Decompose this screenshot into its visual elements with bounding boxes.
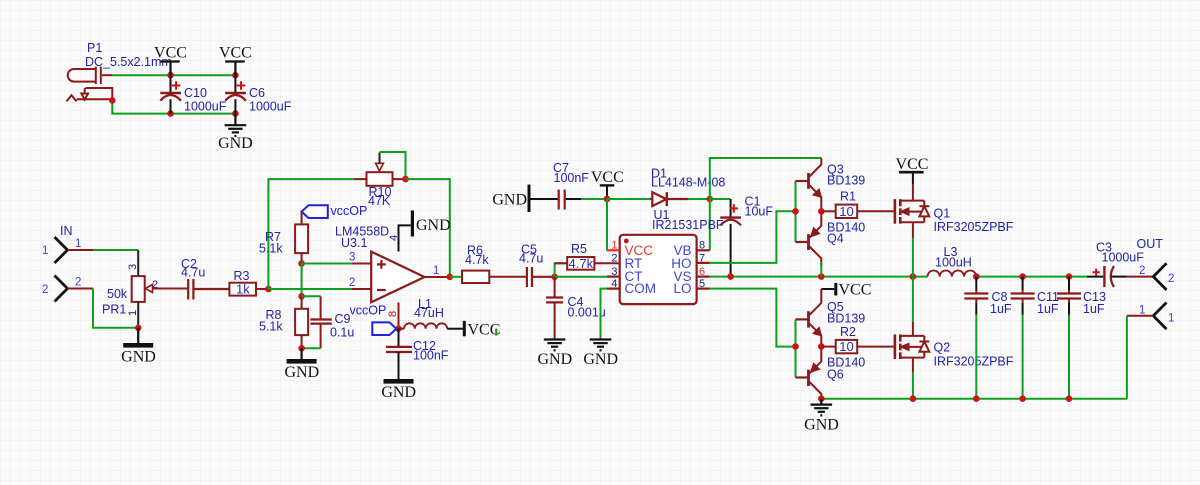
svg-text:IRF3205ZPBF: IRF3205ZPBF <box>934 355 1014 369</box>
svg-text:100uH: 100uH <box>935 256 972 270</box>
wire COM to ground <box>601 289 607 340</box>
junction <box>265 286 272 293</box>
svg-text:R3: R3 <box>234 269 250 283</box>
svg-text:5: 5 <box>699 278 705 290</box>
svg-text:C9: C9 <box>335 312 351 326</box>
IC U1 IR21531PBF <box>620 235 697 304</box>
junction <box>167 72 174 79</box>
wire R1 to Q1 gate <box>857 210 893 212</box>
svg-text:4: 4 <box>388 235 400 241</box>
capacitor C8 1uF <box>964 277 988 399</box>
junction <box>1019 395 1026 402</box>
transistor Q3 BD139 <box>796 158 822 211</box>
junction <box>298 260 305 267</box>
svg-text:1000uF: 1000uF <box>249 100 292 114</box>
junction <box>910 273 917 280</box>
power flag VCC (right of L1) <box>447 328 463 330</box>
wire to op-amp non-inverting input <box>302 263 352 265</box>
svg-text:OUT: OUT <box>1137 237 1164 251</box>
ground GND (below C4) <box>544 340 566 351</box>
svg-text:IR21531PBF: IR21531PBF <box>652 218 724 232</box>
svg-text:4.7k: 4.7k <box>465 253 489 267</box>
wire IN1 to PR1 pin3 <box>93 249 138 251</box>
resistor R7 5.1k <box>301 212 303 225</box>
power flag VCC (Q5 collector) <box>821 288 834 290</box>
ground GND (below PR1, bar style) <box>137 328 139 343</box>
svg-text:100nF: 100nF <box>554 171 590 185</box>
wire Q3/Q4 base tie <box>795 181 797 242</box>
power flag VCC (above C7 junction) <box>600 184 615 186</box>
junction <box>910 395 917 402</box>
wire OUT pin1 to GND rail <box>1126 316 1128 399</box>
potentiometer R10 47K <box>354 153 406 186</box>
capacitor C9 0.1u (parallel with R8) <box>302 296 332 348</box>
capacitor C2 4.7u <box>188 279 229 300</box>
wire D1 to VB node <box>688 198 709 200</box>
capacitor C1 10uF polarized <box>720 199 741 277</box>
resistor R2 10 <box>821 346 835 348</box>
capacitor C7 100nF <box>559 190 565 210</box>
svg-text:1: 1 <box>75 238 81 250</box>
svg-text:1uF: 1uF <box>1037 302 1059 316</box>
junction <box>1019 273 1026 280</box>
capacitor C6 1000uF polarized <box>225 75 246 113</box>
svg-text:0.1u: 0.1u <box>330 326 354 340</box>
capacitor C10 1000uF polarized <box>160 75 181 113</box>
diode D1 LL4148-M-08 <box>650 192 688 206</box>
ground GND (below C6) <box>225 114 247 136</box>
svg-text:47uH: 47uH <box>414 306 444 320</box>
svg-text:LO: LO <box>673 281 691 296</box>
junction <box>973 273 980 280</box>
wire LO to driver bases <box>710 289 796 347</box>
svg-text:vccOP: vccOP <box>350 304 387 318</box>
wire Q4 collector to VS <box>820 262 822 277</box>
ground GND (COM) <box>590 340 612 351</box>
resistor R6 4.7k <box>462 271 489 283</box>
svg-text:8: 8 <box>387 311 399 317</box>
svg-text:1: 1 <box>611 240 617 252</box>
svg-text:5.1k: 5.1k <box>259 242 283 256</box>
svg-text:C6: C6 <box>249 86 265 100</box>
pin 1 of IN <box>68 249 94 251</box>
wire Q5/Q6 base tie <box>795 319 797 377</box>
svg-text:C10: C10 <box>184 86 207 100</box>
svg-text:6: 6 <box>699 266 705 278</box>
wire VS rail <box>710 276 928 278</box>
junction <box>1066 273 1073 280</box>
capacitor C13 1uF <box>1057 277 1081 399</box>
capacitor C11 1uF <box>1011 277 1035 399</box>
svg-text:10: 10 <box>839 339 853 354</box>
svg-text:R2: R2 <box>840 325 856 339</box>
pin 6 VS <box>697 276 710 278</box>
junction <box>792 208 799 215</box>
svg-text:47K: 47K <box>368 194 391 208</box>
junction <box>298 345 305 352</box>
inductor L1 47uH <box>399 323 448 328</box>
svg-text:3: 3 <box>127 264 139 270</box>
svg-text:50k: 50k <box>107 287 128 301</box>
wire HO to driver bases <box>710 211 796 263</box>
junction <box>109 97 116 104</box>
junction <box>818 273 825 280</box>
ground GND (below C12, bar style) <box>384 379 414 384</box>
svg-text:Q2: Q2 <box>934 341 951 355</box>
svg-text:4: 4 <box>611 278 617 290</box>
junction <box>551 274 558 281</box>
svg-text:2: 2 <box>611 253 617 265</box>
svg-text:U3.1: U3.1 <box>341 236 367 250</box>
svg-text:GND: GND <box>416 217 451 234</box>
svg-text:IRF3205ZPBF: IRF3205ZPBF <box>934 220 1014 234</box>
wire VB node up to top rail <box>710 158 822 199</box>
svg-text:LL4148-M-08: LL4148-M-08 <box>651 176 725 190</box>
svg-text:2: 2 <box>349 277 355 289</box>
junction <box>818 395 825 402</box>
svg-text:2: 2 <box>75 277 81 289</box>
junction <box>447 274 454 281</box>
junction <box>1066 395 1073 402</box>
wire output to R6 <box>450 276 462 278</box>
junction <box>402 176 409 183</box>
pin 1 of OUT <box>1127 315 1153 317</box>
svg-text:vccOP: vccOP <box>331 204 368 218</box>
op-amp output wire <box>425 276 450 278</box>
svg-text:2: 2 <box>1139 265 1145 277</box>
junction <box>135 325 142 332</box>
transistor Q6 BD140 <box>796 347 822 399</box>
svg-text:GND: GND <box>537 351 572 368</box>
svg-text:VCC: VCC <box>896 156 929 173</box>
wire feedback left branch (to R10) <box>268 179 354 289</box>
svg-text:GND: GND <box>218 135 253 152</box>
svg-text:1: 1 <box>1139 305 1145 317</box>
wire Q1 source to VS <box>912 238 914 277</box>
junction <box>604 196 611 203</box>
capacitor C5 4.7u <box>527 267 555 287</box>
pin 1 VCC <box>607 249 620 251</box>
svg-text:1uF: 1uF <box>1083 302 1105 316</box>
svg-text:Q1: Q1 <box>934 207 951 221</box>
resistor R3 1k <box>229 283 256 296</box>
power flag VCC (above C6) <box>225 62 245 76</box>
wire junction to CT pin <box>555 276 607 278</box>
junction <box>818 343 825 350</box>
transistor Q2 IRF3205ZPBF mosfet <box>895 322 929 372</box>
wire VB node to C1 <box>710 198 731 200</box>
svg-text:10uF: 10uF <box>745 205 774 219</box>
wire VS after L3 <box>976 276 1087 278</box>
junction <box>973 395 980 402</box>
pin 4 wire to GND flag <box>399 225 411 251</box>
svg-text:Q6: Q6 <box>827 368 844 382</box>
svg-text:1: 1 <box>433 265 439 277</box>
junction <box>395 325 402 332</box>
svg-text:VCC: VCC <box>219 45 252 62</box>
svg-text:1uF: 1uF <box>990 302 1012 316</box>
op-amp U3.1 LM4558D <box>371 252 424 303</box>
pin 2 of IN <box>68 288 94 290</box>
pin of R3 <box>256 288 268 290</box>
resistor R8 5.1k <box>301 296 303 309</box>
svg-text:PR1: PR1 <box>102 303 126 317</box>
svg-text:10: 10 <box>839 204 853 219</box>
svg-text:3: 3 <box>611 266 617 278</box>
wire Q2 source to GND rail <box>912 372 914 399</box>
capacitor C12 100nF <box>386 329 412 379</box>
connector P1 DC_5.5x2.1mm barrel jack <box>67 67 113 102</box>
svg-text:1k: 1k <box>236 282 250 297</box>
wire R2 to Q2 gate <box>857 346 893 348</box>
svg-text:2: 2 <box>152 279 158 291</box>
svg-text:2: 2 <box>1168 273 1174 285</box>
svg-text:BD139: BD139 <box>827 312 865 326</box>
svg-text:4.7k: 4.7k <box>569 256 594 271</box>
svg-text:P1: P1 <box>87 41 102 55</box>
capacitor C3 1000uF polarized <box>1087 266 1153 287</box>
svg-text:GND: GND <box>583 351 618 368</box>
junction <box>232 110 239 117</box>
wire VB node down to pin 8 <box>709 199 711 250</box>
svg-text:VCC: VCC <box>154 45 187 62</box>
wire C7 to VCC junction <box>581 198 607 200</box>
pin 8 wire <box>398 303 400 329</box>
svg-text:GND: GND <box>492 192 527 209</box>
wire feedback right branch (R10 to output) <box>406 179 450 277</box>
svg-text:COM: COM <box>625 281 657 296</box>
pin 7 HO <box>697 262 710 264</box>
wire VCC top rail <box>112 74 235 76</box>
ground flag GND (op-amp pin 4) <box>411 211 414 237</box>
svg-text:VCC: VCC <box>839 282 872 299</box>
svg-text:4.7u: 4.7u <box>519 252 543 266</box>
svg-text:1000uF: 1000uF <box>1102 251 1145 265</box>
wire GND rail <box>821 398 1127 400</box>
net label vccOP (top, at R7) <box>302 204 368 218</box>
svg-text:5.1k: 5.1k <box>259 320 283 334</box>
svg-text:1000uF: 1000uF <box>184 100 227 114</box>
pin of R6 <box>489 276 526 278</box>
svg-text:100nF: 100nF <box>413 349 449 363</box>
ground GND (below Q6) <box>811 399 833 416</box>
net label vccOP (at op-amp pin 8) <box>372 322 396 335</box>
svg-text:GND: GND <box>121 349 156 366</box>
wire to op-amp inverting input <box>268 288 352 290</box>
wire R10 wiper loop <box>380 152 406 179</box>
svg-text:4.7u: 4.7u <box>181 266 205 280</box>
pin 4 COM <box>607 288 620 290</box>
svg-text:8: 8 <box>699 240 705 252</box>
capacitor C4 0.001u <box>546 277 563 340</box>
wire Q2 drain to VS <box>912 277 914 322</box>
svg-text:GND: GND <box>804 417 839 434</box>
inductor L3 100uH <box>928 271 977 277</box>
svg-text:R5: R5 <box>571 242 587 256</box>
power flag VCC (above C10) <box>160 62 180 76</box>
svg-text:1: 1 <box>1168 313 1174 325</box>
svg-text:GND: GND <box>284 364 319 381</box>
wire IN2 to PR1 bottom <box>93 289 138 328</box>
svg-text:R1: R1 <box>840 190 856 204</box>
svg-text:GND: GND <box>381 384 416 401</box>
junction <box>818 208 825 215</box>
svg-text:VCC: VCC <box>591 169 624 186</box>
svg-text:1: 1 <box>42 245 48 257</box>
svg-text:1: 1 <box>127 310 139 316</box>
junction <box>792 343 799 350</box>
svg-text:BD139: BD139 <box>827 174 865 188</box>
svg-text:2: 2 <box>42 284 48 296</box>
resistor R1 10 <box>821 210 835 212</box>
transistor Q5 BD139 <box>796 289 822 347</box>
wire divider to R8 <box>301 264 303 297</box>
wire VCC junction to U1 pin1 <box>606 199 608 250</box>
junction <box>298 293 305 300</box>
wire VCC junction to D1 <box>607 198 650 200</box>
transistor Q4 BD140 <box>796 211 822 266</box>
junction <box>167 110 174 117</box>
junction <box>727 273 734 280</box>
svg-text:7: 7 <box>699 253 705 265</box>
power flag VCC (above Q1) <box>899 171 924 174</box>
junction <box>232 72 239 79</box>
svg-text:Q4: Q4 <box>827 232 844 246</box>
ground GND (below R8, bar style) <box>301 348 303 359</box>
transistor Q1 IRF3205ZPBF mosfet <box>895 184 929 238</box>
junction <box>707 196 714 203</box>
pin 5 LO <box>697 288 710 290</box>
potentiometer PR1 50k <box>132 250 188 328</box>
pin 8 VB <box>697 249 710 251</box>
svg-text:IN: IN <box>60 224 73 238</box>
wire bottom return <box>112 100 235 113</box>
resistor R5 4.7k <box>555 257 620 277</box>
svg-text:3: 3 <box>349 252 355 264</box>
pin 3 CT <box>607 276 620 278</box>
